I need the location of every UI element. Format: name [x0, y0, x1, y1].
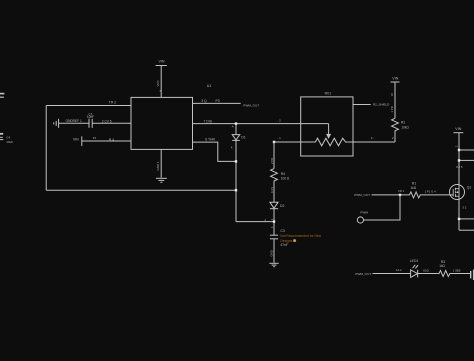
svg-text:VCC: VCC [156, 79, 160, 86]
resistor R1 (horizontal) [408, 192, 422, 198]
svg-text:VI: VI [390, 93, 394, 96]
wire ground to C1 [59, 122, 89, 124]
wire C1 to CV pin 5 [92, 122, 131, 124]
wire drain branch upper [459, 149, 474, 151]
svg-text:10nF: 10nF [87, 115, 94, 119]
warning icon [293, 239, 296, 242]
svg-text:PWM_OUT: PWM_OUT [354, 193, 370, 197]
wire DIS pin 7 to wiper [193, 123, 329, 125]
svg-text:R2_SHIELD: R2_SHIELD [373, 103, 390, 107]
svg-text:P3: P3 [216, 99, 220, 103]
svg-text:RV1: RV1 [325, 91, 332, 95]
resistor R3 (horizontal) [437, 271, 451, 277]
wire sheet pin to net label R2_SHIELD [353, 104, 371, 106]
svg-text:C4: C4 [6, 136, 10, 140]
svg-text:R4: R4 [281, 172, 285, 176]
node junction THR [235, 160, 237, 162]
svg-text:1kΩ: 1kΩ [439, 264, 445, 268]
svg-text:Not Recommended for New: Not Recommended for New [280, 234, 321, 238]
svg-text:47nF: 47nF [280, 243, 288, 247]
svg-text:PWM: PWM [360, 210, 368, 214]
svg-text:10kΩ: 10kΩ [401, 125, 409, 129]
wire bottom run to node [46, 189, 236, 191]
svg-text:K2Ω: K2Ω [423, 269, 429, 273]
svg-text:2 CV 5: 2 CV 5 [102, 119, 112, 123]
wire source branch lower [459, 229, 474, 231]
svg-text:3 -: 3 - [371, 136, 375, 140]
svg-text:A: A [232, 124, 234, 128]
svg-text:1kΩ: 1kΩ [410, 186, 416, 190]
wire Q1 source [458, 199, 460, 230]
wire GND pin 1 stub [160, 149, 162, 177]
power symbol VIN (reset pin bar) [81, 136, 83, 146]
wire TR pin 2 to left rail [46, 105, 131, 107]
svg-text:7 DIS: 7 DIS [204, 119, 213, 123]
wire THR pin 6 jog [193, 142, 237, 161]
svg-text:1 SB5: 1 SB5 [453, 269, 461, 273]
power symbol VIN (top of U1) [156, 66, 167, 98]
svg-text:C3: C3 [280, 229, 284, 233]
capacitor C3 47nF [270, 235, 278, 262]
diode D2 [270, 202, 278, 235]
svg-text:PWM_OUT: PWM_OUT [355, 272, 371, 276]
wire pot left terminal to R4 top [274, 141, 314, 143]
LED LED1 [411, 265, 419, 278]
node junction left rail run [235, 189, 237, 191]
potentiometer RV1 [314, 124, 348, 146]
power symbol VIN (above R2) [391, 82, 400, 118]
svg-text:GNDREF 1: GNDREF 1 [66, 119, 82, 123]
transistor Q1 (N-MOSFET) [450, 185, 465, 200]
svg-text:R2: R2 [401, 120, 405, 124]
wire left rail [45, 106, 47, 191]
node junction drain branch upper [458, 149, 460, 151]
svg-text:GND 1: GND 1 [156, 161, 160, 171]
svg-text:VIN: VIN [455, 127, 461, 131]
connector PWM pin circle [357, 217, 363, 223]
svg-text:2 PD: 2 PD [270, 158, 274, 164]
node junction DIS/D1 [235, 122, 237, 124]
svg-text:1 PD: 1 PD [390, 106, 394, 112]
svg-text:K: K [231, 146, 233, 150]
wire pot right terminal to R2 [347, 141, 395, 143]
wire R3 to edge capacitor [452, 273, 471, 275]
ground (CV bypass, rotated left) [54, 119, 59, 128]
svg-text:U1: U1 [207, 84, 212, 88]
svg-text:P1: P1 [93, 136, 97, 140]
svg-text:D2: D2 [280, 204, 284, 208]
capacitor C1 10nF [89, 119, 92, 128]
svg-text:K P1: K P1 [270, 186, 274, 193]
wire PWM_OUT to R1 [372, 194, 408, 196]
wire VIN to R pin 4 [82, 140, 131, 142]
svg-text:6 THR: 6 THR [205, 138, 215, 142]
svg-text:3 Q: 3 Q [201, 99, 207, 103]
op-amp U1 (timer IC body) [131, 97, 193, 149]
wire drain branch lower [459, 159, 474, 161]
node junction PWM tap [399, 194, 401, 196]
sheet box RV1 [301, 97, 353, 156]
svg-text:- 1: - 1 [277, 136, 281, 140]
capacitor fragment at left edge (top) [0, 94, 4, 98]
node junction source branch [458, 218, 460, 220]
ground (C3) [269, 263, 278, 266]
node junction R4 top [273, 141, 275, 143]
wire R1 to gate [422, 194, 453, 196]
svg-text:10uF: 10uF [6, 140, 13, 144]
svg-text:3 2: 3 2 [462, 205, 466, 209]
ground (under U1) [156, 178, 167, 182]
svg-text:VIN: VIN [73, 138, 79, 142]
capacitor at right edge (cropped) [471, 270, 474, 280]
svg-text:8,8 5: 8,8 5 [456, 165, 463, 169]
svg-text:Q1: Q1 [467, 185, 472, 189]
svg-text:R 4: R 4 [109, 138, 114, 142]
svg-text:TR 2: TR 2 [109, 101, 116, 105]
wire LED1 to R3 [418, 273, 438, 275]
power symbol VIN (top right) [454, 133, 464, 185]
wire source branch upper [459, 218, 474, 220]
svg-text:VIN: VIN [392, 76, 398, 80]
svg-text:LED1: LED1 [410, 259, 419, 263]
node junction C3 top [273, 220, 275, 222]
svg-text:Designs: Designs [280, 239, 292, 243]
diode D1 [232, 124, 240, 222]
wire Q pin 3 output [193, 102, 241, 104]
svg-text:100 Ω: 100 Ω [281, 177, 290, 181]
svg-text:1A 2: 1A 2 [396, 268, 402, 272]
resistor R4 (vertical) [271, 142, 278, 202]
capacitor C4 fragment at left edge [0, 134, 3, 140]
wire PWM_OUT to LED1 [373, 273, 411, 275]
resistor R2 (vertical) [392, 118, 399, 142]
wire PWM connector to tap [364, 195, 401, 220]
svg-text:VIN: VIN [159, 60, 165, 64]
svg-text:PWM_OUT: PWM_OUT [243, 103, 259, 107]
node junction drain branch lower [458, 159, 460, 161]
svg-text:GND: GND [269, 250, 273, 256]
svg-text:VR 1: VR 1 [398, 189, 405, 193]
svg-text:D1: D1 [241, 136, 245, 140]
svg-text:- 2: - 2 [277, 119, 281, 123]
wire node to C3 column [236, 221, 274, 223]
svg-text:1 P1 G 4: 1 P1 G 4 [425, 189, 436, 193]
